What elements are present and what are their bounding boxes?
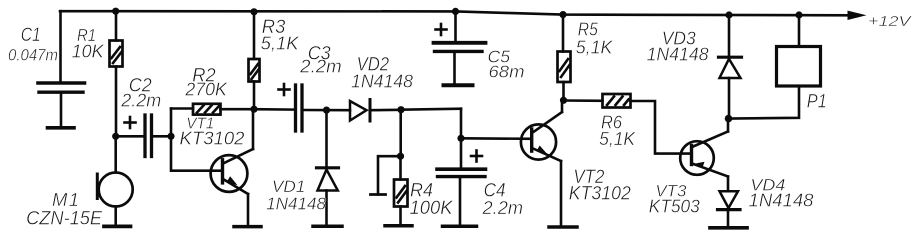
label VT3: [649, 182, 700, 217]
wire C2 to base node: [153, 135, 171, 138]
relay P1: [777, 15, 821, 86]
label VD4: [749, 176, 814, 211]
label VD3: [647, 29, 709, 65]
ground of VT1: [234, 225, 261, 229]
svg-text:M1: M1: [52, 189, 79, 210]
resistor R3: [249, 12, 260, 109]
svg-text:1N4148: 1N4148: [647, 45, 709, 65]
label VD1: [266, 177, 326, 214]
resistor R5: [558, 15, 571, 101]
resistor R4: [394, 156, 408, 224]
transistor VT3 (PNP): [680, 119, 728, 191]
ground of C4: [443, 224, 477, 228]
svg-text:2.2m: 2.2m: [120, 91, 161, 111]
label +12V: [868, 13, 913, 30]
svg-text:C1: C1: [21, 25, 41, 46]
svg-text:1N4148: 1N4148: [351, 72, 413, 92]
svg-text:2.2m: 2.2m: [299, 57, 342, 77]
resistor R1: [110, 11, 123, 136]
svg-text:+12V: +12V: [868, 13, 913, 30]
svg-text:10K: 10K: [72, 42, 105, 62]
R4 side bracket: [371, 156, 401, 194]
svg-text:270K: 270K: [184, 80, 227, 100]
wire node to R6: [564, 99, 603, 102]
ground of M1: [104, 225, 131, 229]
ground of VD4: [710, 226, 747, 230]
node junction R4 top: [397, 153, 404, 160]
svg-text:R5: R5: [578, 19, 599, 40]
svg-text:0.047m: 0.047m: [8, 46, 58, 65]
label R3: [261, 17, 300, 54]
microphone M1: [97, 136, 132, 224]
svg-text:68m: 68m: [489, 62, 525, 82]
node junction VD1 tap: [323, 107, 330, 114]
diode VD2: [350, 100, 401, 122]
wire corner down to VT2 base node: [460, 109, 463, 139]
label R5: [576, 19, 613, 58]
ground of VD1: [313, 225, 342, 229]
wire top +12V rail: [60, 11, 848, 15]
svg-text:2.2m: 2.2m: [481, 198, 523, 218]
svg-text:5,1K: 5,1K: [599, 129, 636, 149]
svg-text:CZN-15E: CZN-15E: [26, 209, 102, 230]
ground of C5: [444, 83, 473, 87]
label VT2: [569, 167, 631, 205]
label M1: [26, 189, 102, 230]
svg-text:5,1K: 5,1K: [261, 34, 300, 54]
node dots on +12V rail: [112, 8, 803, 19]
node junction R3/R2/VT1 collector/C3: [250, 106, 257, 113]
capacitor C1: [38, 11, 85, 126]
node junction R5/VT2 collector/R6: [560, 97, 567, 104]
label C2: [120, 76, 161, 111]
diode VD4: [718, 191, 741, 226]
node junction C4/VT2 base: [457, 135, 464, 142]
label VD2: [351, 55, 413, 92]
wire base node to VT2: [461, 137, 532, 140]
svg-text:100K: 100K: [410, 198, 454, 219]
label C1: [8, 25, 58, 65]
label R1: [72, 25, 105, 62]
svg-text:5,1K: 5,1K: [576, 38, 613, 58]
label R2: [184, 66, 227, 100]
wire drop to R4 node: [399, 110, 402, 157]
wire vertical connector to R2 and base: [171, 109, 222, 171]
svg-text:1N4148: 1N4148: [749, 191, 814, 211]
wire collector node to C3: [254, 108, 294, 111]
capacitor C3: [279, 84, 303, 131]
transistor VT2: [521, 100, 562, 224]
ground of C1: [48, 126, 75, 130]
svg-text:KT3102: KT3102: [180, 127, 246, 148]
wire node to P1: [729, 86, 800, 119]
resistor R6: [603, 94, 631, 108]
label C5: [488, 47, 525, 82]
label P1: [807, 92, 827, 113]
transistor VT1: [211, 109, 253, 224]
diode VD1: [317, 110, 339, 224]
capacitor C4: [437, 138, 486, 224]
wire R6 to VT3 base: [631, 101, 692, 154]
label R6: [599, 112, 636, 149]
resistor R2: [193, 104, 254, 115]
capacitor C2: [125, 115, 152, 157]
wire VD2 out to C4 corner: [401, 109, 461, 110]
svg-text:KT3102: KT3102: [569, 184, 631, 205]
wire C3 to VD2: [304, 109, 351, 112]
label C3: [299, 44, 342, 77]
ground of VT2: [549, 225, 577, 229]
node junction R1/M1/C2: [112, 133, 119, 140]
svg-text:P1: P1: [807, 92, 827, 113]
label R4: [410, 181, 454, 220]
node junction C2/R2/VT1 base: [167, 133, 174, 140]
svg-text:KT503: KT503: [649, 197, 700, 217]
wire node to C2: [116, 135, 144, 138]
label C4: [481, 181, 523, 219]
label VT1: [180, 116, 246, 149]
node junction VD2 out / R4 tap: [397, 106, 404, 113]
svg-text:1N4148: 1N4148: [266, 194, 326, 214]
wire to R2 left: [171, 107, 193, 110]
node junction VD3/VT3 collector/P1: [725, 115, 733, 123]
+12V arrowhead: [848, 11, 867, 20]
ground of R4: [385, 224, 412, 228]
diode VD3: [719, 15, 742, 119]
capacitor C5: [434, 11, 486, 83]
